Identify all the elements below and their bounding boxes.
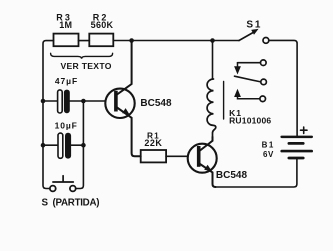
wire R1 to Q2 base	[166, 155, 188, 157]
node dot C2 right	[81, 143, 86, 148]
relay contact NC terminal wire	[238, 62, 261, 64]
wire coil feed from top rail	[212, 41, 214, 80]
transistor Q2 base bar	[197, 146, 201, 167]
svg-text:S1: S1	[246, 19, 262, 30]
capacitor C1 47uF positive plate	[64, 90, 70, 114]
transistor Q1 emitter arrow	[122, 108, 129, 115]
svg-text:VER TEXTO: VER TEXTO	[60, 61, 111, 71]
node dot C1 right	[81, 99, 86, 104]
node dot C1 left	[41, 99, 46, 104]
battery plus sign	[301, 127, 308, 133]
svg-text:S (PARTIDA): S (PARTIDA)	[42, 197, 100, 208]
battery B1 plate long top	[280, 136, 313, 139]
node dot Q1 collector on rail	[129, 38, 134, 43]
svg-text:560K: 560K	[91, 20, 114, 30]
wire between R3 and R2	[79, 40, 90, 42]
svg-text:1M: 1M	[59, 20, 72, 30]
wire cap C2 right lead	[71, 144, 83, 146]
brace under R3 R2	[51, 53, 113, 59]
switch S1 contact	[263, 38, 269, 44]
transistor Q1 collector	[117, 41, 132, 95]
switch S1 blade	[239, 32, 254, 41]
transistor Q1 emitter	[117, 108, 141, 157]
relay K1 coil	[207, 79, 216, 137]
wire cap C1 left lead	[43, 100, 58, 102]
transistor Q2 circle	[188, 144, 217, 173]
battery B1 plate short	[288, 142, 305, 145]
transistor Q1 base bar	[114, 91, 118, 112]
battery B1 plate short bottom	[288, 157, 305, 160]
relay contact NO terminal	[260, 96, 266, 102]
resistor R2	[89, 34, 113, 47]
capacitor C1 47uF negative plate	[58, 90, 63, 113]
svg-text:B1: B1	[262, 140, 275, 149]
pushbutton S PARTIDA right contact	[70, 186, 76, 192]
wire bottom rail	[216, 159, 297, 187]
svg-text:BC548: BC548	[140, 98, 172, 109]
switch S1 blade arrow	[251, 29, 258, 35]
transistor Q2 collector	[200, 137, 213, 151]
pushbutton actuator bar	[53, 176, 73, 182]
relay common terminal	[261, 79, 267, 85]
svg-text:22K: 22K	[144, 138, 162, 148]
svg-text:BC548: BC548	[216, 170, 248, 181]
wire S1 to battery plus	[269, 40, 297, 135]
relay contact NC terminal	[261, 60, 267, 66]
transistor Q1 circle	[105, 89, 134, 118]
svg-text:10µF: 10µF	[55, 120, 78, 130]
battery B1 plate long	[280, 150, 313, 153]
relay contact NO arrow	[234, 89, 241, 97]
svg-text:6V: 6V	[263, 150, 274, 159]
relay contact NC arrow	[237, 63, 239, 67]
transistor Q2 emitter	[200, 164, 216, 187]
transistor Q2 emitter arrow	[204, 165, 212, 172]
relay common blade	[235, 76, 261, 82]
wire cap C1 to Q1 base	[70, 100, 106, 102]
svg-text:47µF: 47µF	[55, 76, 78, 86]
wire R2 to S1 pivot	[113, 40, 239, 42]
node dot coil feed on rail	[210, 38, 215, 43]
wire cap C2 left lead	[43, 144, 58, 146]
relay core bar	[223, 82, 225, 120]
node dot C2 left	[41, 143, 46, 148]
resistor R1	[141, 150, 166, 162]
wire top rail left segment and left rail down to pushbutton	[43, 41, 54, 189]
pushbutton S PARTIDA left contact	[50, 186, 56, 192]
capacitor C2 10uF positive plate	[65, 133, 71, 159]
wire node line caps to pushbutton right	[76, 101, 84, 189]
resistor R3	[54, 34, 79, 47]
svg-text:RU101006: RU101006	[229, 116, 271, 126]
capacitor C2 10uF negative plate	[58, 133, 63, 158]
